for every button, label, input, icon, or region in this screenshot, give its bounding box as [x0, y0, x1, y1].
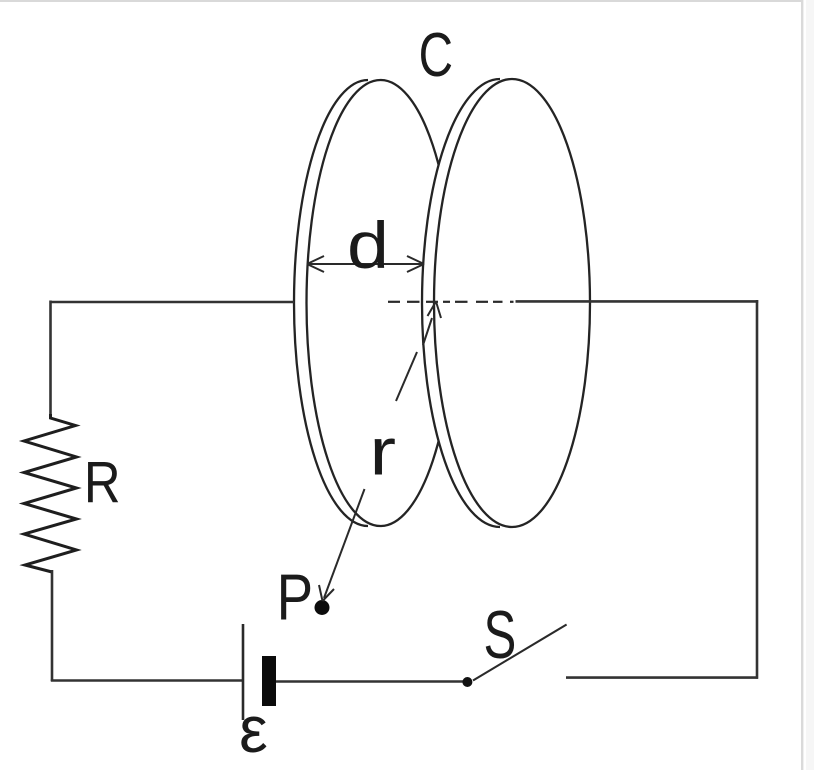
dashed axis line segment 6	[476, 301, 488, 303]
dashed axis line segment 8	[510, 301, 514, 303]
dimension arrow d: left arrowhead	[307, 256, 324, 272]
switch S pivot dot	[462, 677, 472, 687]
capacitor C right plate: back rim arc	[422, 79, 500, 527]
dashed axis line segment 1	[388, 301, 400, 303]
capacitor C left plate: front face ellipse	[307, 80, 455, 526]
r arrow: middle shaft segment	[396, 352, 417, 401]
dimension arrow d: shaft	[308, 263, 423, 265]
capacitor C left plate: white silhouette	[294, 80, 455, 526]
r arrow: upper shaft segment	[423, 318, 432, 345]
page chrome: right off-white column	[806, 0, 814, 770]
wire: top right horizontal over right plate	[516, 300, 759, 303]
capacitor C left plate: back rim arc	[294, 80, 368, 526]
r arrow: arrowhead at axis	[428, 302, 442, 319]
wire: bottom right horizontal	[566, 676, 758, 679]
svg-text:ε: ε	[239, 693, 268, 766]
dashed axis line segment 7	[493, 301, 503, 303]
resistor R zigzag	[24, 414, 77, 572]
svg-text:r: r	[369, 416, 396, 490]
dashed axis line segment 5	[455, 301, 468, 303]
page chrome: right vertical edge line	[801, 0, 803, 770]
wire: battery to switch	[276, 680, 463, 683]
svg-text:C: C	[419, 21, 453, 90]
wire: left rail upper vertical	[49, 301, 52, 419]
r arrow: lower shaft from P to plate	[324, 489, 365, 598]
wire: left rail lower vertical	[51, 570, 54, 681]
svg-text:P: P	[277, 561, 314, 634]
page chrome: top gray strip	[0, 0, 802, 2]
dashed axis line segment 3 across rim	[426, 301, 438, 303]
wire: bottom left horizontal to battery	[51, 679, 242, 682]
svg-text:R: R	[84, 450, 121, 515]
svg-text:d: d	[347, 209, 389, 283]
svg-text:S: S	[484, 598, 517, 673]
battery long thin plate line	[242, 624, 245, 720]
dashed axis line segment 4	[443, 301, 450, 303]
r arrow: arrowhead at P	[319, 585, 334, 601]
point P dot	[315, 600, 330, 615]
switch S blade	[473, 625, 567, 681]
dimension arrow d: right arrowhead	[407, 256, 424, 272]
wire: right rail vertical	[756, 300, 759, 679]
wire: left horizontal from left rail to left plate	[50, 301, 295, 304]
dashed axis line segment 2	[407, 301, 420, 303]
battery short thick plate	[262, 656, 276, 706]
capacitor C right plate: white silhouette	[422, 79, 590, 527]
capacitor C right plate: front face ellipse	[434, 79, 590, 527]
